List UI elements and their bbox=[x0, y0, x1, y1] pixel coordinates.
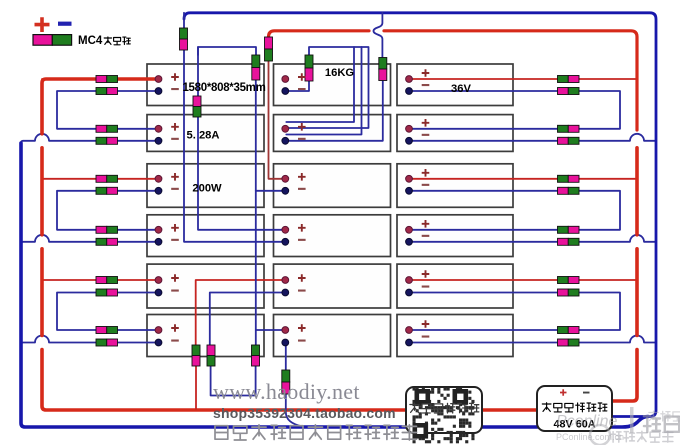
svg-text:MC4: MC4 bbox=[78, 35, 103, 47]
svg-text:shop35392304.taobao.com: shop35392304.taobao.com bbox=[213, 405, 396, 421]
svg-text:36V: 36V bbox=[451, 83, 471, 95]
svg-text:5. 28A: 5. 28A bbox=[187, 130, 220, 142]
svg-text:www.haodiy.net: www.haodiy.net bbox=[213, 379, 360, 404]
svg-text:200W: 200W bbox=[192, 183, 222, 195]
svg-text:1580*808*35mm: 1580*808*35mm bbox=[182, 82, 265, 94]
svg-text:16KG: 16KG bbox=[325, 67, 355, 79]
